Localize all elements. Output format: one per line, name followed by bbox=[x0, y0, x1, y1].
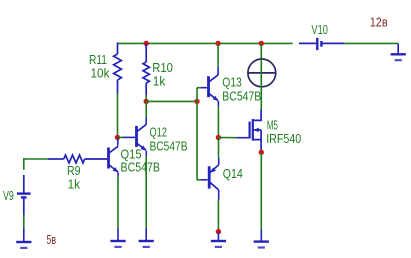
ground top right bbox=[397, 43, 399, 54]
svg-text:IRF540: IRF540 bbox=[266, 131, 301, 146]
wire Q13 emitter to output node bbox=[217, 101, 219, 106]
svg-text:1k: 1k bbox=[153, 74, 166, 89]
wire V9 top horizontal bbox=[24, 158, 48, 160]
node dot Q14 ground bbox=[216, 229, 221, 234]
svg-text:V10: V10 bbox=[311, 22, 328, 37]
ammeter U1 circle bbox=[248, 59, 276, 87]
wire Q15 emitter to ground bbox=[117, 173, 119, 177]
svg-text:BC547B: BC547B bbox=[121, 160, 161, 175]
svg-text:1k: 1k bbox=[68, 177, 81, 192]
wire Q14 base lead bbox=[197, 179, 201, 181]
mosfet M5 IRF540 bbox=[250, 110, 262, 153]
wire Q14 collector to ground bbox=[218, 190, 220, 200]
battery V10 bbox=[299, 38, 344, 50]
wire V9 vertical bbox=[23, 158, 25, 170]
wire R10 bottom to node bbox=[145, 95, 147, 101]
transistor Q14 bbox=[209, 165, 219, 190]
transistor Q13 BC547B bbox=[209, 75, 219, 101]
transistor Q12 BC547B bbox=[137, 125, 147, 151]
ground for Q15 emitter bbox=[117, 228, 119, 241]
wire Q12 emitter to ground bbox=[145, 151, 147, 156]
wire Q14 emitter stub up bbox=[218, 158, 220, 165]
svg-text:10k: 10k bbox=[91, 65, 110, 80]
node dot R11-Q15-Q12 base bbox=[115, 135, 120, 140]
wire V9 bottom to ground bbox=[23, 215, 25, 228]
wire node R10 to driver column bbox=[146, 100, 197, 102]
wire Q12 collector stub bbox=[145, 118, 147, 125]
wire node to Q12 base bbox=[118, 136, 124, 138]
svg-text:Q14: Q14 bbox=[223, 166, 243, 181]
node dot rail-Q13 collector bbox=[215, 41, 220, 46]
wire R11 bottom to node bbox=[117, 94, 119, 138]
wire meter through and to M5 drain bbox=[260, 59, 262, 87]
node dot driver column bbox=[194, 99, 199, 104]
wire output node to M5 gate bbox=[218, 137, 237, 139]
ground for M5 source bbox=[260, 230, 262, 242]
node dot M5 source bbox=[259, 150, 264, 155]
node dot rail-R10 bbox=[144, 41, 149, 46]
svg-text:Q13: Q13 bbox=[222, 75, 242, 90]
svg-text:V9: V9 bbox=[3, 188, 14, 203]
ground for V9 bbox=[23, 228, 25, 242]
svg-text:R9: R9 bbox=[67, 163, 81, 178]
wire Q13 collector to rail bbox=[217, 43, 219, 66]
battery V9 bbox=[17, 175, 31, 215]
wire meter branch upper bbox=[260, 43, 262, 59]
svg-text:BC547B: BC547B bbox=[150, 138, 188, 153]
resistor R10 bbox=[143, 43, 149, 95]
transistor Q15 BC547B bbox=[109, 146, 119, 172]
node dot R10-Q12 collector-driver bbox=[144, 99, 149, 104]
svg-text:12в: 12в bbox=[370, 15, 388, 30]
svg-text:5в: 5в bbox=[47, 232, 57, 247]
ground for Q12 emitter bbox=[145, 228, 147, 241]
wire M5 source to ground bbox=[260, 152, 262, 230]
resistor R11 bbox=[114, 43, 122, 94]
ground for Q14 collector bbox=[217, 232, 219, 241]
resistor R9 bbox=[48, 155, 107, 163]
node dot rail-meter branch bbox=[259, 41, 264, 46]
wire driver column vertical bbox=[196, 88, 198, 102]
wire Q13 base lead bbox=[197, 87, 201, 89]
wire V10 to right ground bbox=[344, 42, 398, 44]
node dot output emitters-gate bbox=[216, 135, 221, 140]
wire top rail left segment bbox=[118, 42, 262, 44]
svg-text:BC547B: BC547B bbox=[222, 89, 261, 104]
wire top rail from ammeter branch to V10 bbox=[261, 42, 292, 44]
wire Q15 collector stub bbox=[117, 137, 119, 145]
